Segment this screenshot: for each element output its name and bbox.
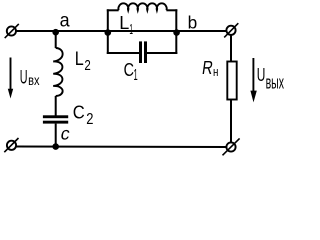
label Uvx xyxy=(20,66,40,88)
capacitor C2 xyxy=(43,115,68,123)
svg-text:U: U xyxy=(257,65,266,85)
svg-text:C: C xyxy=(124,59,134,80)
label Uvyx xyxy=(257,65,284,93)
tank right junction dot xyxy=(173,29,180,36)
label L2 xyxy=(75,49,91,74)
terminal input top-left xyxy=(5,24,19,38)
arrow Uvyx xyxy=(250,58,256,102)
arrow Uvx xyxy=(8,58,13,99)
capacitor C1 xyxy=(139,41,147,63)
svg-text:вх: вх xyxy=(28,72,39,88)
inductor L1 xyxy=(118,3,166,10)
wire L2 to C2 xyxy=(55,96,57,116)
wire node a to L2 xyxy=(55,31,57,48)
node c junction dot xyxy=(52,143,59,150)
wire C2 to node c xyxy=(55,124,57,147)
tank top rail right segment xyxy=(166,9,177,11)
tank bottom rail left segment xyxy=(107,52,139,54)
svg-text:вых: вых xyxy=(266,72,284,92)
terminal output bottom-right xyxy=(223,138,240,155)
label C2 xyxy=(73,102,94,129)
wire terminal to resistor xyxy=(230,35,232,62)
svg-text:a: a xyxy=(60,10,70,32)
wire bottom rail xyxy=(16,146,226,149)
wire top rail xyxy=(16,30,226,32)
svg-text:L: L xyxy=(119,13,129,33)
svg-text:1: 1 xyxy=(129,21,133,38)
label L1 xyxy=(119,13,133,38)
label C1 xyxy=(124,59,138,84)
svg-text:C: C xyxy=(73,102,85,123)
terminal output top-right xyxy=(224,23,238,37)
resistor RH body xyxy=(227,62,236,100)
terminal input bottom-left xyxy=(4,138,18,152)
tank top rail left segment xyxy=(107,9,119,11)
svg-text:U: U xyxy=(20,66,28,88)
label RH xyxy=(201,58,219,79)
tank left vertical wire xyxy=(107,9,109,54)
svg-text:2: 2 xyxy=(86,111,93,128)
node a junction dot xyxy=(52,29,59,36)
svg-text:2: 2 xyxy=(84,58,90,74)
tank left junction dot xyxy=(105,29,112,36)
wire resistor to bottom terminal xyxy=(230,100,232,143)
inductor L2 xyxy=(53,48,62,96)
svg-text:b: b xyxy=(188,12,198,32)
svg-text:н: н xyxy=(213,65,218,79)
tank bottom rail right segment xyxy=(147,52,177,54)
svg-text:1: 1 xyxy=(134,67,138,84)
svg-text:L: L xyxy=(75,49,84,70)
tank right vertical wire xyxy=(175,9,177,54)
